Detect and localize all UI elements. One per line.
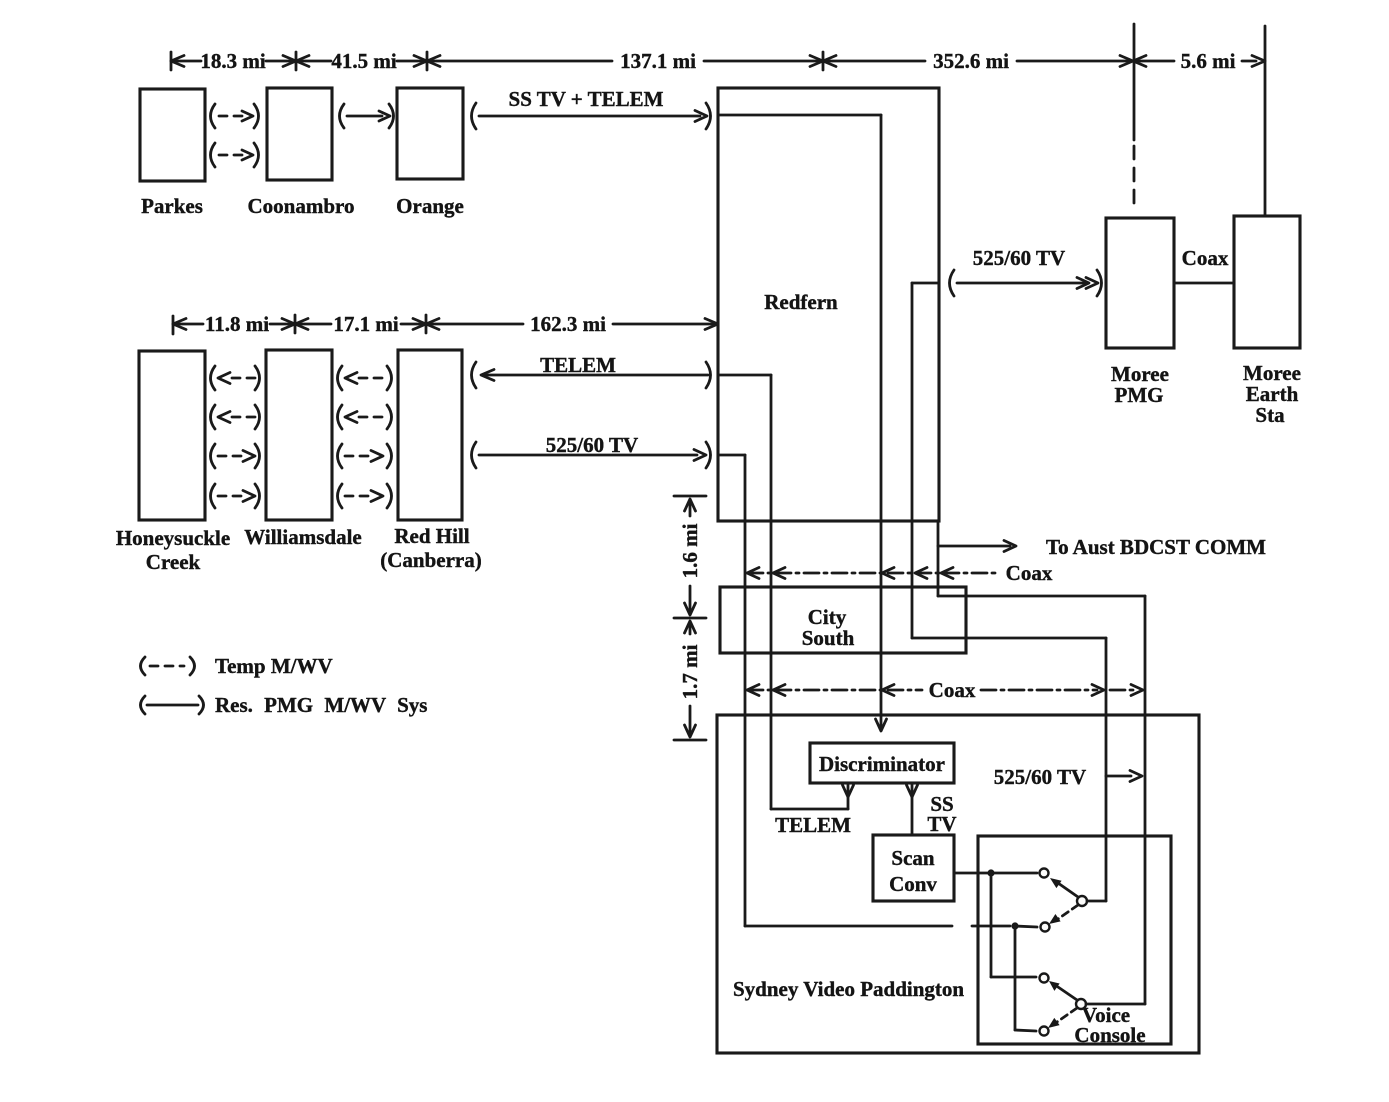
svg-text:TV: TV bbox=[927, 812, 956, 836]
wire dim segment bbox=[171, 60, 201, 63]
wire vertical 1145 bbox=[1144, 596, 1147, 1004]
wire 525/60 TV out to Moree bbox=[911, 283, 914, 638]
box Williamsdale bbox=[266, 350, 332, 520]
svg-text:TELEM: TELEM bbox=[775, 813, 851, 837]
wire temp link W-R y378 left bbox=[338, 366, 343, 390]
dimension arrow up tip496 bbox=[685, 499, 696, 511]
wire temp link H-W y496 right bbox=[211, 484, 216, 508]
box Moree Earth Sta bbox=[1234, 216, 1300, 348]
svg-text:41.5 mi: 41.5 mi bbox=[331, 49, 396, 73]
guide line above Moree Earth Sta bbox=[1264, 26, 1267, 216]
dimension arrow right tip296 bbox=[283, 56, 296, 67]
dimension tick x296 bbox=[295, 52, 298, 70]
switch contact 2 bbox=[1041, 923, 1050, 932]
box Moree PMG bbox=[1106, 218, 1174, 348]
wire dim segment bbox=[295, 323, 331, 326]
wire temp link W-R y417 left bbox=[338, 405, 343, 429]
svg-text:Honeysuckle: Honeysuckle bbox=[116, 526, 230, 550]
dimension arrow right tip1133 bbox=[1120, 56, 1133, 67]
dimension tick x173 bbox=[172, 316, 175, 334]
wire 525/60 TV RedHill-Redfern bbox=[472, 442, 477, 468]
dimension arrow right tip718 bbox=[705, 319, 718, 330]
MEASUREMENT LINE 2 bbox=[173, 312, 718, 336]
dimension tick x295 bbox=[294, 315, 297, 333]
svg-text:SS TV + TELEM: SS TV + TELEM bbox=[509, 87, 664, 111]
wire temp link Parkes-Coonambro upper bbox=[211, 104, 216, 128]
junction dot 2 bbox=[1011, 922, 1018, 929]
wire vertical 1106 bbox=[1105, 638, 1108, 901]
dimension arrow left tip1133 bbox=[1133, 56, 1146, 67]
svg-text:Discriminator: Discriminator bbox=[819, 752, 945, 776]
svg-text:Scan: Scan bbox=[891, 846, 935, 870]
svg-text:PMG: PMG bbox=[1115, 383, 1164, 407]
dimension tick x427 bbox=[426, 52, 429, 70]
coax1 arrow tips bbox=[747, 568, 759, 579]
dimension arrow left tip427 bbox=[427, 56, 440, 67]
REDFERN AND RIGHT bbox=[718, 88, 1301, 1004]
wire 525 feed to switch bbox=[745, 925, 952, 928]
wire Discriminator TELEM output bbox=[847, 783, 850, 809]
dimension arrow right tip1265 bbox=[1252, 56, 1265, 67]
coax line 2 dash-dot bbox=[748, 689, 922, 692]
svg-text:5.6 mi: 5.6 mi bbox=[1181, 49, 1236, 73]
wire coax Moree PMG - Earth Sta bbox=[1174, 282, 1234, 285]
wire dim segment bbox=[427, 60, 612, 63]
dimension arrow right tip427 bbox=[414, 56, 427, 67]
svg-text:162.3 mi: 162.3 mi bbox=[530, 312, 606, 336]
box Discriminator bbox=[810, 743, 954, 783]
switch lever bottom solid bbox=[1058, 987, 1077, 1000]
svg-text:TELEM: TELEM bbox=[540, 353, 616, 377]
svg-text:11.8 mi: 11.8 mi bbox=[205, 312, 269, 336]
switch lever top dashed bbox=[1058, 905, 1078, 919]
box Parkes bbox=[140, 89, 205, 181]
wire To Aust BDCST branch bbox=[938, 545, 1010, 548]
wire dim shaft bbox=[689, 586, 692, 613]
coax line 1 dash-dot bbox=[748, 572, 997, 575]
dimension arrow left tip296 bbox=[296, 56, 309, 67]
box Honeysuckle Creek bbox=[139, 351, 205, 520]
svg-text:525/60 TV: 525/60 TV bbox=[994, 765, 1086, 789]
svg-text:Conv: Conv bbox=[889, 872, 937, 896]
wire SS TV vertical to Discriminator bbox=[880, 115, 883, 729]
svg-text:South: South bbox=[802, 626, 855, 650]
svg-text:Red Hill: Red Hill bbox=[394, 524, 469, 548]
wire dim segment bbox=[270, 323, 295, 326]
ROW 1 BOXES bbox=[140, 87, 711, 218]
svg-text:Coax: Coax bbox=[1006, 561, 1053, 585]
box Orange bbox=[397, 88, 463, 179]
dimension tick y496 bbox=[674, 495, 706, 498]
wire temp link W-R y496 right bbox=[338, 484, 343, 508]
wire 525/60 TV inside Redfern bbox=[718, 454, 745, 457]
switch pivot top bbox=[1077, 896, 1087, 906]
legend temp symbol bbox=[141, 657, 146, 675]
wire dim segment bbox=[613, 323, 716, 326]
box Red Hill bbox=[398, 350, 462, 520]
wire junction2 to contact 4 bbox=[1014, 926, 1017, 1030]
wire dim segment bbox=[173, 323, 203, 326]
dimension arrow left tip295 bbox=[295, 319, 308, 330]
wire Scan Conv output bbox=[954, 872, 1037, 875]
wire dim segment bbox=[1133, 60, 1174, 63]
wire dim segment bbox=[823, 60, 925, 63]
svg-text:Redfern: Redfern bbox=[764, 290, 838, 314]
box City South bbox=[720, 587, 966, 653]
box Redfern bbox=[718, 88, 939, 521]
box Scan Conv bbox=[873, 835, 954, 901]
svg-text:Temp M/WV: Temp M/WV bbox=[215, 654, 333, 678]
svg-text:1.7 mi: 1.7 mi bbox=[678, 644, 702, 699]
wire TELEM inside Redfern bbox=[718, 374, 771, 377]
wire pivot bottom link bbox=[1086, 1003, 1145, 1006]
box Sydney Video Paddington bbox=[717, 715, 1199, 1053]
switch pivot bottom bbox=[1076, 999, 1086, 1009]
wire temp link H-W y378 left bbox=[211, 366, 216, 390]
svg-text:Sydney Video Paddington: Sydney Video Paddington bbox=[733, 977, 964, 1001]
svg-text:137.1 mi: 137.1 mi bbox=[620, 49, 696, 73]
MEASUREMENT LINE 1 bbox=[171, 24, 1265, 216]
svg-text:525/60 TV: 525/60 TV bbox=[973, 246, 1065, 270]
VERTICAL DIMENSION bbox=[674, 496, 706, 740]
svg-text:(Canberra): (Canberra) bbox=[380, 548, 481, 572]
wire SS TV + TELEM Orange-Redfern bbox=[472, 103, 477, 129]
svg-text:525/60 TV: 525/60 TV bbox=[546, 433, 638, 457]
wire dim segment bbox=[1242, 60, 1256, 63]
ROW 2 BOXES bbox=[116, 350, 711, 574]
svg-text:Sta: Sta bbox=[1255, 403, 1285, 427]
dimension arrow down tip616 bbox=[685, 603, 696, 615]
dimension arrow down tip737 bbox=[685, 725, 696, 737]
svg-text:1.6 mi: 1.6 mi bbox=[678, 523, 702, 578]
wire dim segment bbox=[397, 60, 427, 63]
wire 525/60 TV switch branch bbox=[1106, 775, 1131, 778]
guide line above Moree PMG solid bbox=[1133, 24, 1136, 140]
switch contact 4 bbox=[1040, 1027, 1049, 1036]
svg-text:17.1 mi: 17.1 mi bbox=[333, 312, 398, 336]
guide line above Moree PMG dashed bbox=[1133, 146, 1136, 206]
dimension tick x171 bbox=[170, 52, 173, 70]
wire dim segment bbox=[1017, 60, 1133, 63]
wire dim segment bbox=[401, 323, 426, 326]
wire link to switch column y638 bbox=[912, 637, 1106, 640]
dimension tick y618 bbox=[674, 617, 706, 620]
coax2 arrow tips right bbox=[1092, 685, 1104, 696]
dimension arrow left tip171 bbox=[171, 56, 184, 67]
CITY SOUTH / COAX bbox=[720, 561, 1143, 702]
wire dim segment bbox=[296, 60, 331, 63]
svg-text:Coonambro: Coonambro bbox=[248, 194, 355, 218]
dimension arrow up tip621 bbox=[685, 621, 696, 633]
wire dim segment bbox=[704, 60, 823, 63]
switch contact 3 bbox=[1040, 974, 1049, 983]
svg-text:Res. PMG M/WV Sys: Res. PMG M/WV Sys bbox=[215, 693, 427, 717]
svg-text:18.3 mi: 18.3 mi bbox=[200, 49, 265, 73]
wire TELEM RedHill-Redfern bbox=[472, 362, 477, 388]
wire temp link Parkes-Coonambro lower bbox=[211, 143, 216, 167]
LEGEND bbox=[141, 654, 428, 717]
wire temp link H-W y456 right bbox=[211, 444, 216, 468]
svg-text:Console: Console bbox=[1074, 1023, 1145, 1047]
dimension tick x823 bbox=[822, 52, 825, 70]
dimension arrow right tip295 bbox=[282, 319, 295, 330]
dimension arrow right tip823 bbox=[810, 56, 823, 67]
wire dim shaft bbox=[689, 706, 692, 734]
wire pivot top link bbox=[1087, 900, 1106, 903]
switch contact 1 bbox=[1040, 869, 1049, 878]
svg-text:Coax: Coax bbox=[929, 678, 976, 702]
dimension arrow left tip426 bbox=[426, 319, 439, 330]
wire temp link H-W y417 left bbox=[211, 405, 216, 429]
switch lever bottom dashed bbox=[1057, 1008, 1077, 1022]
SYDNEY BOX bbox=[717, 715, 1199, 1053]
wire right column y596 bbox=[937, 521, 940, 596]
wire res link Coonambro-Orange bbox=[340, 104, 345, 128]
dimension tick x426 bbox=[425, 315, 428, 333]
junction dot bbox=[987, 869, 994, 876]
svg-text:352.6 mi: 352.6 mi bbox=[933, 49, 1009, 73]
svg-text:Coax: Coax bbox=[1182, 246, 1229, 270]
svg-text:Creek: Creek bbox=[146, 550, 201, 574]
wire dim segment bbox=[266, 60, 296, 63]
arrow into Discriminator bbox=[876, 719, 887, 731]
svg-text:Parkes: Parkes bbox=[141, 194, 203, 218]
switch lever top solid bbox=[1058, 883, 1078, 897]
dimension arrow left tip823 bbox=[823, 56, 836, 67]
wire dim segment bbox=[426, 323, 523, 326]
wire temp link W-R y456 right bbox=[338, 444, 343, 468]
wire SS TV feed inside Redfern bbox=[718, 114, 881, 117]
coax2 arrow tips left bbox=[747, 685, 759, 696]
svg-text:Williamsdale: Williamsdale bbox=[244, 525, 361, 549]
dimension tick y740 bbox=[674, 739, 706, 742]
svg-text:To Aust BDCST COMM: To Aust BDCST COMM bbox=[1046, 535, 1266, 559]
wire Discriminator SS TV output bbox=[911, 783, 914, 835]
legend res symbol bbox=[141, 696, 146, 714]
dimension arrow right tip426 bbox=[413, 319, 426, 330]
dimension arrow left tip173 bbox=[173, 319, 186, 330]
svg-text:Orange: Orange bbox=[396, 194, 464, 218]
wire junction to contact 3 bbox=[990, 873, 993, 977]
box Coonambro bbox=[267, 88, 332, 180]
box Voice Console bbox=[978, 836, 1171, 1044]
